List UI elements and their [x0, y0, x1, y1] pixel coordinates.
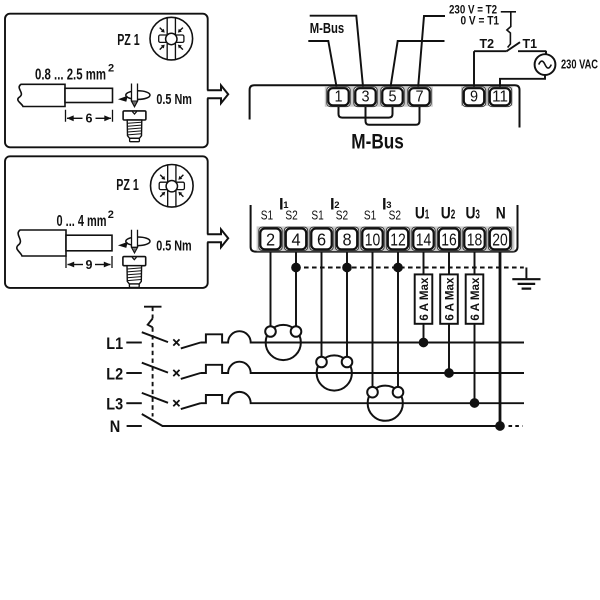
wire (box 1) conductor — [65, 88, 113, 102]
junction on L2 — [444, 368, 454, 378]
svg-text:6: 6 — [86, 112, 93, 126]
svg-text:N: N — [110, 418, 121, 436]
junction S2 of CT3 — [393, 263, 403, 273]
L2 breaker (thermal + magnetic) and line — [201, 362, 525, 373]
wire terminal U to fuse (L2) — [448, 252, 450, 275]
jumper link terminals 1-5 — [339, 107, 393, 118]
junction on N — [495, 421, 505, 431]
instruction box 2 (wire prep 0-4 mm2) — [5, 156, 208, 288]
meter housing bottom edge — [251, 205, 518, 252]
screwdriver (box 1) tip — [132, 101, 138, 107]
N line — [162, 425, 503, 427]
svg-text:12: 12 — [390, 230, 406, 250]
junction S2 of CT2 — [342, 263, 352, 273]
terminal 14 — [412, 227, 435, 250]
selector link line down to switch — [507, 12, 511, 47]
wire fuse to L3 — [474, 324, 476, 403]
protective earth symbol — [525, 268, 527, 279]
svg-text:0.5 Nm: 0.5 Nm — [156, 238, 192, 255]
svg-text:2: 2 — [451, 208, 456, 222]
L3 switch contact cross — [173, 400, 179, 406]
terminal 1 — [327, 87, 350, 107]
wire terminal U to fuse (L1) — [423, 252, 425, 275]
wire terminal 4 to CT1 S2 — [295, 252, 297, 327]
wire to terminal 3 — [310, 16, 363, 87]
terminal 11 — [488, 87, 511, 107]
svg-text:PZ 1: PZ 1 — [117, 32, 140, 49]
current transformer CT2 (L2) — [317, 355, 352, 390]
svg-text:8: 8 — [342, 230, 351, 250]
terminal 4 — [284, 227, 307, 250]
L2 switch contact cross — [173, 370, 179, 376]
wire terminal 10 to CT3 S1 — [372, 252, 374, 387]
terminal 18 — [463, 227, 486, 250]
svg-text:5: 5 — [388, 89, 396, 106]
svg-text:PZ 1: PZ 1 — [116, 177, 139, 194]
terminal 6 — [310, 227, 333, 250]
svg-text:2: 2 — [266, 230, 275, 250]
L3 fuse-switch blade — [181, 403, 201, 409]
svg-text:S1: S1 — [261, 208, 273, 222]
svg-text:L3: L3 — [106, 396, 123, 414]
svg-text:6 A Max: 6 A Max — [443, 277, 457, 320]
pozidriv bit icon (box 2) — [151, 165, 194, 208]
jumper link terminals 3-7 — [366, 107, 420, 125]
svg-text:3: 3 — [475, 208, 480, 222]
junction S2 of CT1 — [291, 263, 301, 273]
wire to terminal 1 — [308, 41, 336, 87]
svg-text:6: 6 — [317, 230, 326, 250]
wire switch to terminal 9 — [473, 51, 475, 86]
screwdriver (box 1) rotation-arrow ellipse — [126, 91, 150, 100]
terminal screw (box 1) tip — [130, 138, 140, 141]
svg-text:0.8 ... 2.5 mm: 0.8 ... 2.5 mm — [35, 67, 106, 84]
svg-text:18: 18 — [467, 230, 483, 250]
wire terminal 2 to CT1 S1 — [270, 252, 272, 327]
L1 breaker (thermal + magnetic) and line — [201, 331, 525, 342]
svg-text:N: N — [496, 204, 506, 223]
svg-text:T1: T1 — [523, 36, 538, 51]
screwdriver (box 2) tip — [132, 247, 138, 253]
svg-text:11: 11 — [492, 89, 508, 106]
terminal screw (box 1) head — [123, 111, 146, 120]
L1 switch blade — [142, 332, 168, 342]
AC source 230 VAC — [535, 54, 556, 75]
wire terminal 12 to CT3 S2 — [397, 252, 399, 387]
N lead — [127, 425, 142, 427]
current transformer CT3 (L3) — [368, 386, 403, 421]
N switch blade — [142, 414, 163, 426]
L1 lead — [126, 342, 142, 344]
earthing dashed line (S2 common) — [296, 267, 524, 269]
svg-text:L1: L1 — [106, 335, 123, 353]
svg-text:M-Bus: M-Bus — [351, 129, 404, 153]
svg-text:2: 2 — [108, 209, 114, 221]
screwdriver (box 2) rotation-arrow ellipse — [126, 237, 150, 246]
svg-text:U: U — [466, 204, 476, 223]
current transformer CT1 (L1) — [266, 325, 301, 360]
dimension 6 mm strip length — [66, 110, 113, 122]
wire terminal 8 to CT2 S2 — [346, 252, 348, 357]
svg-text:1: 1 — [425, 208, 430, 222]
terminal 5 — [381, 87, 404, 107]
N line dashed continuation — [509, 425, 523, 427]
svg-text:0.5 Nm: 0.5 Nm — [156, 91, 192, 108]
svg-text:9: 9 — [86, 258, 93, 272]
terminal 8 — [335, 227, 358, 250]
junction on L1 — [419, 338, 429, 348]
L1 switch contact cross — [173, 339, 179, 345]
fuse 6 A Max (L2) — [440, 274, 458, 323]
L2 lead — [126, 372, 142, 374]
wire to terminal 7 — [418, 16, 445, 87]
fuse 6 A Max (L3) — [466, 274, 484, 323]
svg-text:9: 9 — [470, 89, 478, 106]
svg-text:S1: S1 — [311, 208, 323, 222]
terminal 2 — [259, 227, 282, 250]
wire (box 2) insulation — [17, 230, 66, 256]
L3 breaker (thermal + magnetic) and line — [201, 392, 525, 403]
terminal 20 — [488, 227, 511, 250]
svg-text:6 A Max: 6 A Max — [468, 277, 482, 320]
wire fuse to L1 — [423, 324, 425, 343]
terminal 7 — [408, 87, 431, 107]
L3 switch blade — [142, 393, 168, 403]
svg-text:U: U — [415, 204, 425, 223]
wire terminal 6 to CT2 S1 — [321, 252, 323, 357]
svg-text:4: 4 — [291, 230, 300, 250]
L3 lead — [126, 402, 142, 404]
svg-text:S2: S2 — [285, 208, 297, 222]
arrow from box 2 to meter terminals — [206, 234, 211, 242]
svg-text:3: 3 — [361, 89, 369, 106]
L2 switch blade — [142, 363, 168, 373]
wire (box 2) conductor — [66, 235, 112, 251]
terminal screw (box 2) tip — [129, 284, 139, 287]
svg-text:7: 7 — [415, 89, 423, 106]
wire terminal U to fuse (L3) — [474, 252, 476, 275]
terminal screw (box 1) threaded shank — [127, 120, 142, 138]
svg-text:L2: L2 — [106, 365, 123, 383]
terminal screw (box 2) head — [123, 257, 146, 266]
screwdriver (box 2) shaft — [132, 230, 138, 248]
terminal screw (box 2) threaded shank — [127, 266, 142, 284]
svg-text:10: 10 — [365, 230, 381, 250]
terminal 16 — [437, 227, 460, 250]
svg-text:16: 16 — [441, 230, 457, 250]
svg-text:S2: S2 — [336, 208, 348, 222]
switch linkage dashed line — [152, 307, 154, 319]
terminal block background (1-7) — [325, 86, 433, 106]
L2 fuse-switch blade — [181, 373, 201, 379]
svg-text:U: U — [441, 204, 451, 223]
svg-text:6 A Max: 6 A Max — [417, 277, 431, 320]
wire fuse to L2 — [448, 324, 450, 373]
meter housing top edge — [250, 85, 520, 127]
wire (box 1) insulation — [18, 84, 65, 106]
terminal 10 — [361, 227, 384, 250]
svg-text:1: 1 — [334, 89, 342, 106]
selector dash after T2 label — [501, 11, 516, 13]
terminal 12 — [386, 227, 409, 250]
junction on L3 — [470, 398, 480, 408]
L1 fuse-switch blade — [181, 343, 201, 349]
fuse 6 A Max (L1) — [415, 274, 433, 323]
svg-text:0 V = T1: 0 V = T1 — [461, 13, 500, 27]
svg-text:T2: T2 — [480, 36, 495, 51]
instruction box 1 (wire prep 0.8-2.5 mm2) — [5, 14, 208, 148]
terminal 3 — [354, 87, 377, 107]
svg-text:20: 20 — [492, 230, 508, 250]
svg-text:S2: S2 — [389, 208, 401, 222]
arrow from box 1 to M-Bus terminals — [206, 90, 211, 98]
wire terminal 20 to N — [499, 252, 502, 426]
terminal 9 — [462, 87, 485, 107]
svg-text:2: 2 — [108, 63, 114, 75]
switch linkage T-bar — [144, 306, 162, 308]
terminal block background (2-20) — [257, 226, 515, 251]
svg-text:S1: S1 — [364, 208, 376, 222]
svg-text:230 VAC: 230 VAC — [561, 58, 598, 72]
wire AC source to terminal 11 — [500, 51, 546, 87]
screwdriver (box 1) shaft — [132, 84, 138, 102]
svg-text:M-Bus: M-Bus — [310, 20, 345, 37]
svg-text:14: 14 — [416, 230, 432, 250]
terminal block background (9-11) — [461, 86, 513, 106]
tariff switch T2/T1 — [474, 42, 546, 51]
pozidriv bit icon (box 1) — [150, 17, 193, 60]
wire to terminal 5 — [391, 41, 445, 87]
dimension 9 mm strip length — [66, 256, 112, 268]
svg-text:0 ... 4 mm: 0 ... 4 mm — [57, 213, 107, 230]
